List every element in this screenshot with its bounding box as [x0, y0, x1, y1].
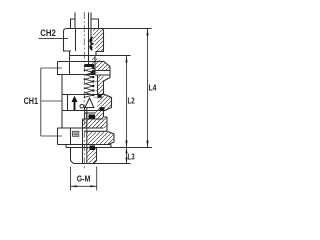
hex3 hatch right — [87, 131, 114, 144]
spring back lines — [94, 73, 98, 98]
washer2 — [66, 147, 152, 149]
thread hatch — [95, 117, 107, 128]
tube end face — [84, 65, 88, 67]
body right wall edge upper — [103, 81, 105, 95]
nut neck step — [69, 51, 71, 62]
poppet guide — [86, 108, 88, 120]
poppet — [85, 98, 95, 108]
wall hatch column — [98, 75, 104, 95]
body left edge — [61, 75, 63, 129]
svg-text:L4: L4 — [149, 83, 157, 93]
CH1 hex outline — [62, 95, 112, 111]
stud seal (black) — [90, 146, 96, 151]
CH1 branch to hex3 — [41, 135, 62, 137]
ferrule (cutting ring) — [90, 37, 93, 50]
L3 dimension line — [126, 148, 128, 164]
tube left outer wall — [74, 13, 76, 29]
spring — [85, 68, 93, 97]
stud outline — [71, 148, 97, 164]
body top face + L2 top extension — [70, 55, 131, 57]
CH1 leader — [41, 100, 62, 102]
flow arrow — [74, 102, 76, 111]
tube right inner wall — [88, 13, 90, 67]
washer bottom line — [84, 130, 107, 132]
L4 dimension line — [147, 29, 149, 148]
nut CH2 outline — [64, 29, 104, 56]
body right wall edge lower — [103, 111, 105, 118]
nut CH2 hatch right half — [93, 29, 104, 52]
poppet skirt curl — [80, 104, 84, 108]
washer top line — [58, 127, 104, 129]
lower seat (black) — [89, 115, 96, 119]
solid block below valve — [83, 119, 104, 128]
hex3 stamp — [73, 131, 79, 136]
CH2 leader — [39, 37, 69, 39]
block top — [83, 118, 104, 120]
svg-text:L2: L2 — [128, 96, 135, 106]
hex3 facet — [70, 128, 72, 145]
upper seal ring — [98, 95, 102, 98]
L2 dimension line — [126, 56, 128, 148]
CH1 branch vertical — [40, 68, 42, 136]
svg-text:L3: L3 — [128, 151, 135, 161]
wall column below hex — [95, 111, 104, 118]
tube right outer wall — [90, 13, 92, 39]
cavity right wall upper — [94, 56, 96, 76]
thread step — [104, 116, 108, 118]
svg-text:CH1: CH1 — [24, 95, 38, 106]
cavity right wall mid — [97, 75, 99, 95]
hex3 outline — [58, 128, 115, 145]
centerline — [83, 12, 85, 170]
nut collar top — [71, 19, 99, 29]
nut facet line — [75, 29, 77, 52]
thread outer edge — [106, 117, 108, 131]
nut CH2 top face — [64, 29, 152, 32]
stud hatch — [87, 148, 97, 164]
svg-text:G-M: G-M — [77, 174, 91, 184]
lower seal ring — [100, 107, 105, 110]
hex3 bottom + L2/L4 bottom extension — [58, 144, 112, 146]
bore wall right — [86, 113, 88, 164]
bore wall left — [82, 119, 84, 164]
svg-text:CH2: CH2 — [40, 27, 56, 38]
CH1 hex hatch right — [98, 95, 112, 111]
G-M extension lines — [70, 167, 72, 191]
CH1 branch horizontal — [41, 67, 62, 69]
spring far-side coils — [85, 68, 93, 70]
stud bottom + L3 bottom extension — [74, 163, 131, 165]
valve seat band — [85, 64, 95, 67]
G-M dimension line — [71, 185, 97, 187]
hex1 hatch right — [92, 56, 110, 71]
hex1 facet — [69, 62, 71, 75]
internal shoulder — [85, 112, 96, 114]
CH1 hex facet — [67, 95, 69, 111]
hex1 outline — [58, 62, 111, 82]
spring coil dots — [84, 67, 95, 98]
